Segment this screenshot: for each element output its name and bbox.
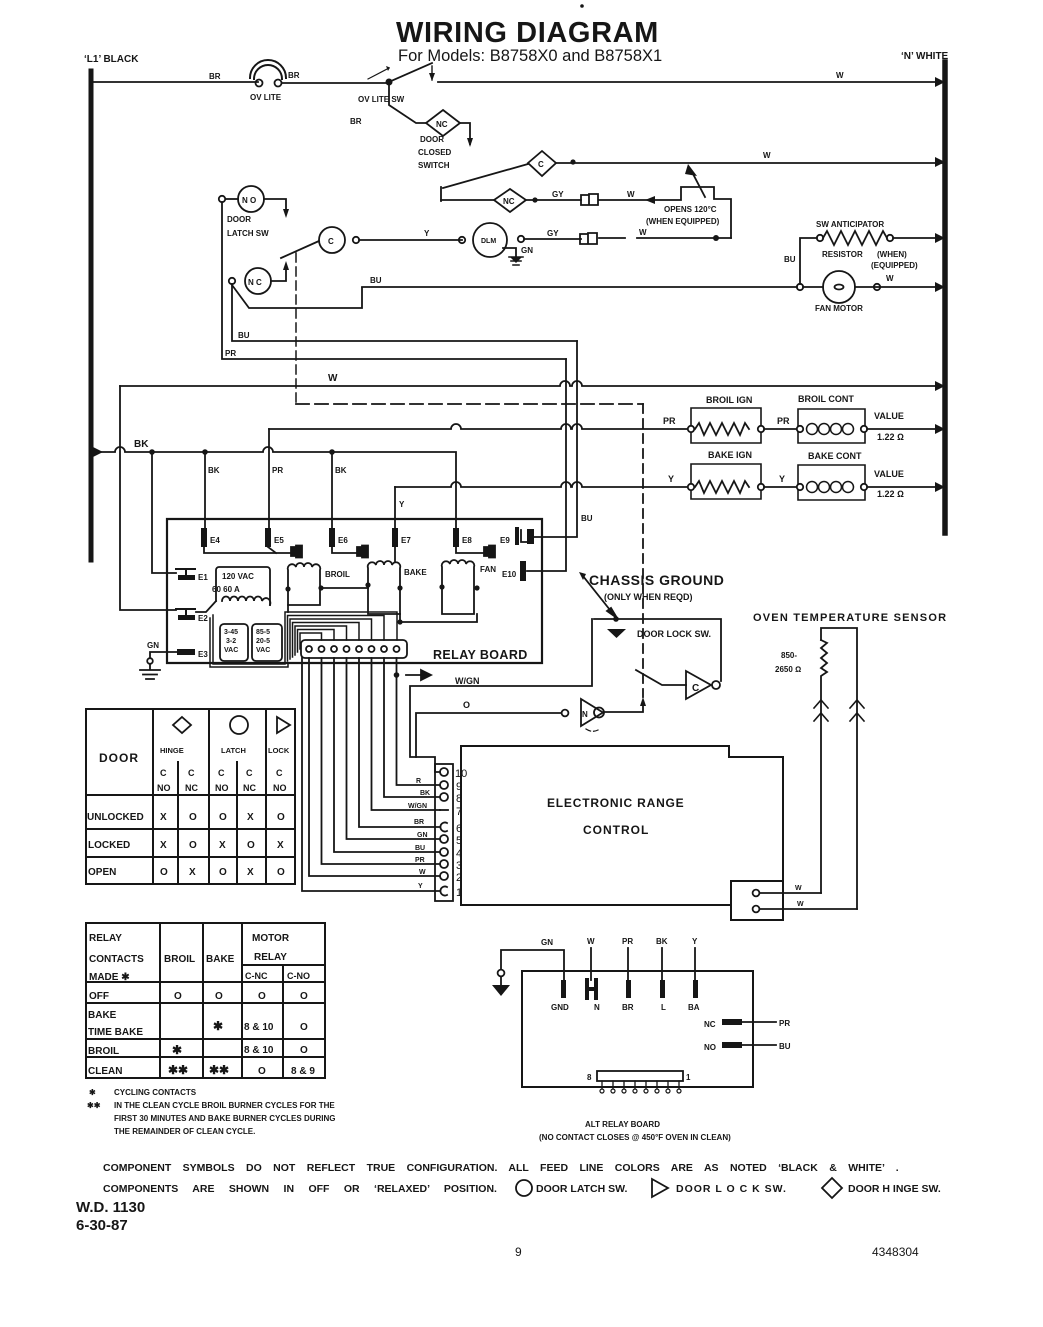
svg-text:1.22 Ω: 1.22 Ω bbox=[877, 432, 904, 442]
wire E6 lower bbox=[332, 547, 357, 553]
svg-text:PR: PR bbox=[663, 416, 676, 426]
wire broil ign to cont bbox=[764, 428, 797, 430]
svg-text:BR: BR bbox=[209, 72, 221, 81]
wire E3 to ground bbox=[150, 652, 177, 658]
svg-text:4348304: 4348304 bbox=[872, 1245, 919, 1259]
svg-text:1.22 Ω: 1.22 Ω bbox=[877, 489, 904, 499]
svg-text:E8: E8 bbox=[462, 536, 472, 545]
svg-text:DOOR LOCK SW.: DOOR LOCK SW. bbox=[637, 629, 711, 639]
svg-text:1: 1 bbox=[456, 887, 462, 899]
wire resistor to N bus bbox=[893, 237, 945, 239]
svg-text:PR: PR bbox=[622, 937, 633, 946]
svg-text:E5: E5 bbox=[274, 536, 284, 545]
footer lock symbol bbox=[652, 1179, 668, 1197]
svg-text:NO: NO bbox=[704, 1043, 716, 1052]
wire sensor top bbox=[760, 892, 821, 894]
ERC pin 6 bbox=[440, 823, 462, 835]
junction N bus fan row bbox=[935, 282, 945, 292]
junction dot chassis bbox=[613, 616, 619, 622]
svg-text:3-45: 3-45 bbox=[224, 629, 238, 636]
wire E1 drop bbox=[152, 452, 176, 573]
resistor SW ANTICIPATOR bbox=[816, 220, 918, 270]
svg-text:E3: E3 bbox=[198, 650, 208, 659]
svg-text:W/GN: W/GN bbox=[455, 676, 480, 686]
svg-text:(ONLY WHEN REQD): (ONLY WHEN REQD) bbox=[604, 592, 693, 602]
svg-text:O: O bbox=[277, 812, 285, 823]
wire E4 lower to connector bbox=[204, 547, 290, 553]
svg-text:CLEAN: CLEAN bbox=[88, 1066, 122, 1077]
junction dot bbox=[570, 159, 575, 164]
svg-text:X: X bbox=[277, 840, 284, 851]
svg-text:COMPONENT SYMBOLS DO NOT R: COMPONENT SYMBOLS DO NOT REFLECT TRUE CO… bbox=[103, 1162, 899, 1174]
svg-text:IN THE CLEAN CYCLE BROIL BURNE: IN THE CLEAN CYCLE BROIL BURNER CYCLES F… bbox=[114, 1101, 335, 1110]
dashed chassis line vertical bbox=[295, 253, 297, 404]
wire connector drop 7 WGN bbox=[372, 658, 441, 810]
svg-text:RELAY BOARD: RELAY BOARD bbox=[433, 648, 528, 662]
wire bundle nest 3 bbox=[290, 619, 372, 659]
svg-text:BK: BK bbox=[335, 466, 347, 475]
wire bundle wrap outer bbox=[287, 605, 289, 612]
wire L1 bus bbox=[89, 71, 94, 560]
junction L1 bus arrow bbox=[91, 446, 103, 458]
svg-text:3: 3 bbox=[456, 860, 462, 872]
svg-text:O: O bbox=[189, 812, 197, 823]
terminal E10 bbox=[502, 561, 526, 581]
svg-text:E1: E1 bbox=[198, 573, 208, 582]
wire PR ignitor row bbox=[269, 424, 691, 429]
coil BAKE bbox=[365, 561, 427, 614]
arrow on wire bbox=[645, 196, 655, 204]
svg-text:BU: BU bbox=[415, 845, 425, 852]
svg-text:BROIL: BROIL bbox=[88, 1046, 119, 1057]
motor DLM circle bbox=[459, 223, 524, 257]
svg-text:O: O bbox=[258, 1066, 266, 1077]
svg-text:CYCLING CONTACTS: CYCLING CONTACTS bbox=[114, 1088, 197, 1097]
svg-text:BU: BU bbox=[779, 1042, 791, 1051]
svg-text:BAKE IGN: BAKE IGN bbox=[708, 450, 752, 460]
junction circle bbox=[797, 284, 803, 290]
connector strip relay board bbox=[301, 640, 407, 658]
wire E8 lower bbox=[456, 547, 484, 553]
svg-text:GND: GND bbox=[551, 1003, 569, 1012]
svg-text:C: C bbox=[218, 768, 225, 778]
svg-text:BAKE CONT: BAKE CONT bbox=[808, 451, 862, 461]
door table rows bbox=[87, 812, 285, 878]
svg-text:GY: GY bbox=[547, 229, 559, 238]
wire broil to bake coil bbox=[321, 587, 368, 589]
svg-text:C-NO: C-NO bbox=[287, 971, 310, 981]
svg-text:DOOR L O C K SW.: DOOR L O C K SW. bbox=[676, 1183, 787, 1195]
svg-text:NC: NC bbox=[436, 120, 448, 129]
relay table footnotes bbox=[87, 1088, 336, 1136]
svg-text:9: 9 bbox=[515, 1245, 522, 1259]
svg-text:850-: 850- bbox=[781, 651, 797, 660]
svg-text:GY: GY bbox=[552, 190, 564, 199]
door lock sw top bbox=[594, 619, 721, 681]
junction N bus anticipator row bbox=[935, 233, 945, 243]
svg-text:BROIL: BROIL bbox=[325, 570, 350, 579]
wire stub W bbox=[587, 937, 595, 980]
wire sensor bottom bbox=[760, 908, 857, 910]
svg-text:NC: NC bbox=[243, 783, 256, 793]
svg-text:E10: E10 bbox=[502, 570, 517, 579]
terminal circle NO switch bbox=[562, 710, 569, 717]
svg-text:O: O bbox=[219, 812, 227, 823]
arrow W/GN bbox=[406, 670, 431, 680]
svg-text:NO: NO bbox=[215, 783, 229, 793]
svg-text:W.D. 1130: W.D. 1130 bbox=[76, 1199, 145, 1216]
svg-text:CLOSED: CLOSED bbox=[418, 148, 452, 157]
svg-text:BK: BK bbox=[656, 937, 668, 946]
svg-text:VAC: VAC bbox=[256, 647, 270, 654]
wire connector drop 2 W bbox=[309, 658, 440, 876]
svg-text:BK: BK bbox=[420, 790, 430, 797]
svg-text:X: X bbox=[160, 840, 167, 851]
switch blade door lock bbox=[636, 670, 686, 685]
wire connector drop 6 BR bbox=[359, 658, 440, 827]
svg-text:BU: BU bbox=[784, 255, 796, 264]
svg-text:✱: ✱ bbox=[172, 1043, 182, 1057]
svg-text:OPEN: OPEN bbox=[88, 867, 116, 878]
terminal N bbox=[587, 980, 600, 1012]
wire top feed L1 to lamp bbox=[91, 81, 258, 83]
svg-text:2: 2 bbox=[456, 872, 462, 884]
svg-text:W: W bbox=[886, 274, 894, 283]
svg-text:OV LITE SW: OV LITE SW bbox=[358, 95, 405, 104]
wire bundle wrap lower 1 bbox=[213, 615, 285, 664]
svg-text:Y: Y bbox=[692, 937, 698, 946]
ERC pin 4 bbox=[440, 848, 462, 860]
svg-text:WIRING DIAGRAM: WIRING DIAGRAM bbox=[396, 17, 659, 49]
svg-text:PR: PR bbox=[225, 349, 236, 358]
wire E4 drop bbox=[204, 452, 206, 528]
sensor resistor loop bbox=[775, 628, 857, 909]
svg-text:X: X bbox=[160, 812, 167, 823]
wire PR drop to E10 bbox=[527, 359, 566, 571]
terminal BA bbox=[688, 980, 700, 1012]
svg-text:BR: BR bbox=[622, 1003, 634, 1012]
svg-text:BAKE: BAKE bbox=[206, 954, 235, 965]
svg-text:E6: E6 bbox=[338, 536, 348, 545]
svg-text:✱✱: ✱✱ bbox=[87, 1101, 101, 1110]
wire switch to N bus bbox=[438, 81, 945, 83]
svg-text:60 60 A: 60 60 A bbox=[212, 585, 240, 594]
svg-text:W: W bbox=[328, 373, 338, 384]
switch NC circle bbox=[229, 268, 271, 294]
svg-text:✱✱: ✱✱ bbox=[168, 1063, 188, 1077]
wire BU horizontal bbox=[232, 284, 577, 341]
svg-text:W: W bbox=[763, 151, 771, 160]
svg-text:BROIL IGN: BROIL IGN bbox=[706, 395, 752, 405]
svg-text:O: O bbox=[300, 1022, 308, 1033]
svg-text:NO: NO bbox=[157, 783, 171, 793]
svg-text:BR: BR bbox=[414, 819, 424, 826]
svg-text:N: N bbox=[594, 1003, 600, 1012]
ERC pin 10 bbox=[440, 768, 467, 780]
wire Y to door lock motor bbox=[359, 239, 462, 241]
wire W left drop to E2 bbox=[120, 386, 176, 610]
wire connector drop 3 PR bbox=[322, 658, 441, 864]
ERC pin 9 bbox=[440, 781, 462, 793]
svg-text:W: W bbox=[836, 71, 844, 80]
svg-text:O: O bbox=[277, 867, 285, 878]
svg-text:BU: BU bbox=[370, 276, 382, 285]
svg-text:1: 1 bbox=[686, 1073, 691, 1082]
svg-text:Y: Y bbox=[418, 883, 423, 890]
junction dot bbox=[713, 235, 719, 241]
svg-text:BROIL CONT: BROIL CONT bbox=[798, 394, 854, 404]
svg-text:C: C bbox=[188, 768, 195, 778]
wire BK main bbox=[91, 447, 456, 530]
terminal E7 bbox=[392, 528, 411, 547]
ground GN at motor bbox=[503, 248, 516, 256]
svg-text:GN: GN bbox=[417, 832, 428, 839]
svg-text:O: O bbox=[215, 991, 223, 1002]
wire bundle nest 6 bbox=[298, 630, 335, 653]
svg-text:BU: BU bbox=[238, 331, 250, 340]
wire Y ignitor row bbox=[395, 482, 691, 487]
svg-text:NC: NC bbox=[185, 783, 198, 793]
wire broil cont to N bus bbox=[867, 428, 945, 430]
wire bake cont to N bus bbox=[867, 486, 945, 488]
svg-text:CHASSIS GROUND: CHASSIS GROUND bbox=[589, 572, 724, 588]
switch NC diamond (hinge) bbox=[494, 189, 526, 212]
connector block below E6 bbox=[357, 546, 368, 558]
connector block below E5 bbox=[291, 546, 302, 558]
arrow chassis ground leader bbox=[583, 576, 617, 618]
svg-text:Y: Y bbox=[424, 229, 430, 238]
coil BAKE CONT bbox=[797, 451, 904, 500]
svg-text:VALUE: VALUE bbox=[874, 469, 904, 479]
switch door latch NO circle bbox=[219, 186, 269, 238]
svg-text:NO: NO bbox=[273, 783, 287, 793]
transformer secondary 1 bbox=[220, 624, 248, 661]
wire bundle nest 5 bbox=[295, 626, 347, 655]
junction dot bbox=[329, 449, 335, 455]
junction N bus row C bbox=[935, 157, 945, 167]
junction W/GN tap bbox=[394, 672, 400, 678]
svg-text:BK: BK bbox=[134, 439, 149, 450]
svg-text:L: L bbox=[661, 1003, 666, 1012]
svg-text:W: W bbox=[639, 228, 647, 237]
svg-text:O: O bbox=[219, 867, 227, 878]
svg-text:8 & 10: 8 & 10 bbox=[244, 1045, 274, 1056]
svg-text:6-30-87: 6-30-87 bbox=[76, 1217, 128, 1234]
svg-text:CONTROL: CONTROL bbox=[583, 823, 649, 837]
coil BROIL CONT bbox=[797, 394, 904, 443]
terminal E4 bbox=[201, 528, 220, 547]
wire connector drop 1 Y bbox=[302, 658, 440, 891]
svg-text:DOOR: DOOR bbox=[420, 135, 444, 144]
svg-text:C: C bbox=[538, 160, 544, 169]
svg-text:NC: NC bbox=[704, 1020, 716, 1029]
contact NC bbox=[704, 1019, 790, 1029]
svg-text:R: R bbox=[416, 778, 421, 785]
svg-text:4: 4 bbox=[456, 848, 462, 860]
footer latch symbol bbox=[516, 1180, 532, 1196]
svg-text:C: C bbox=[692, 683, 699, 694]
svg-text:X: X bbox=[219, 840, 226, 851]
wire stub PR bbox=[622, 937, 633, 980]
svg-text:✱: ✱ bbox=[213, 1019, 223, 1033]
svg-text:ALT RELAY BOARD: ALT RELAY BOARD bbox=[585, 1120, 660, 1129]
wire bundle nest 2 bbox=[288, 616, 385, 662]
svg-text:BR: BR bbox=[350, 117, 362, 126]
svg-text:FIRST 30 MINUTES AND BAKE BURN: FIRST 30 MINUTES AND BAKE BURNER CYCLES … bbox=[114, 1114, 336, 1123]
svg-text:RELAY: RELAY bbox=[254, 952, 287, 963]
svg-text:8: 8 bbox=[587, 1073, 592, 1082]
svg-text:PR: PR bbox=[272, 466, 283, 475]
svg-text:PR: PR bbox=[777, 416, 790, 426]
svg-text:BA: BA bbox=[688, 1003, 700, 1012]
sensor chevrons right bbox=[850, 700, 864, 721]
coil BROIL bbox=[285, 563, 350, 605]
thermal switch arrow OPENS 120C bbox=[692, 172, 705, 197]
wire connector drop 9 R bbox=[397, 658, 441, 785]
junction dot bbox=[397, 619, 402, 624]
terminal E5 bbox=[265, 528, 284, 547]
svg-text:BU: BU bbox=[581, 514, 593, 523]
svg-text:RESISTOR: RESISTOR bbox=[822, 250, 863, 259]
wire N bus bbox=[942, 62, 948, 533]
svg-text:W: W bbox=[419, 869, 426, 876]
svg-text:DOOR H INGE SW.: DOOR H INGE SW. bbox=[848, 1183, 941, 1195]
svg-text:W: W bbox=[627, 190, 635, 199]
footer hinge symbol bbox=[822, 1178, 842, 1198]
svg-text:E4: E4 bbox=[210, 536, 220, 545]
wire W line bbox=[120, 381, 945, 386]
svg-text:GN: GN bbox=[147, 641, 159, 650]
svg-text:6: 6 bbox=[456, 823, 462, 835]
svg-text:(WHEN): (WHEN) bbox=[877, 250, 907, 259]
svg-text:85-5: 85-5 bbox=[256, 629, 270, 636]
wire E2 to transformer bbox=[196, 601, 216, 612]
wire bundle wrap lower 2 bbox=[210, 618, 288, 667]
wire C diamond to N bus bbox=[556, 162, 945, 164]
transformer secondary 2 bbox=[252, 624, 282, 661]
svg-text:5: 5 bbox=[456, 835, 462, 847]
svg-text:BAKE: BAKE bbox=[404, 568, 427, 577]
wire connector drop 8 BK bbox=[384, 658, 440, 797]
door table header symbols bbox=[173, 716, 290, 734]
svg-text:8: 8 bbox=[456, 793, 462, 805]
svg-text:8 & 9: 8 & 9 bbox=[291, 1066, 315, 1077]
wire NC diamond left bbox=[441, 199, 494, 201]
dashed chassis line horizontal bbox=[296, 403, 643, 405]
svg-text:PR: PR bbox=[779, 1019, 790, 1028]
svg-text:GN: GN bbox=[521, 246, 533, 255]
relay board outline bbox=[167, 519, 542, 663]
wire BR drop to door closed switch bbox=[389, 82, 426, 123]
svg-text:OV LITE: OV LITE bbox=[250, 93, 282, 102]
coil FAN bbox=[439, 560, 496, 614]
wire bundle nest 4 bbox=[293, 623, 360, 658]
terminal E3 bbox=[177, 649, 208, 659]
svg-text:O: O bbox=[189, 840, 197, 851]
svg-text:‘N’ WHITE: ‘N’ WHITE bbox=[901, 51, 949, 62]
junction N bus broil row bbox=[935, 424, 945, 434]
svg-text:8 & 10: 8 & 10 bbox=[244, 1022, 274, 1033]
wire motor to junction bbox=[524, 238, 731, 239]
terminal GND bbox=[551, 980, 569, 1012]
ERC outline bbox=[461, 746, 783, 905]
svg-text:X: X bbox=[247, 867, 254, 878]
wire NC to arrow bbox=[271, 265, 286, 281]
svg-text:FAN: FAN bbox=[480, 565, 496, 574]
svg-text:SWITCH: SWITCH bbox=[418, 161, 450, 170]
ERC pin 5 bbox=[440, 835, 462, 847]
svg-text:7: 7 bbox=[456, 806, 462, 818]
svg-text:OVEN TEMPERATURE SENSOR: OVEN TEMPERATURE SENSOR bbox=[753, 612, 947, 624]
wire connector drop 5 GN bbox=[347, 658, 441, 839]
svg-text:C-NC: C-NC bbox=[245, 971, 268, 981]
svg-text:THE REMAINDER OF CLEAN CYCLE.: THE REMAINDER OF CLEAN CYCLE. bbox=[114, 1127, 255, 1136]
wire lamp to switch bbox=[282, 82, 389, 84]
svg-text:✱: ✱ bbox=[89, 1088, 96, 1097]
ground GN alt board bbox=[492, 938, 564, 996]
svg-text:3-2: 3-2 bbox=[226, 638, 236, 645]
svg-text:BR: BR bbox=[288, 71, 300, 80]
door table header text bbox=[99, 746, 290, 793]
switch C circle bbox=[319, 227, 359, 253]
junction N bus top bbox=[935, 77, 945, 87]
svg-text:✱✱: ✱✱ bbox=[209, 1063, 229, 1077]
svg-text:COMPONENTS ARE SHOWN IN OF: COMPONENTS ARE SHOWN IN OFF OR ‘RELAXED’… bbox=[103, 1183, 497, 1195]
svg-text:VAC: VAC bbox=[224, 647, 238, 654]
svg-text:2650 Ω: 2650 Ω bbox=[775, 665, 801, 674]
ERC pin 2 bbox=[440, 872, 462, 884]
svg-text:O: O bbox=[258, 991, 266, 1002]
wire NO output bbox=[604, 703, 643, 712]
terminal E2 bbox=[176, 609, 208, 623]
svg-text:Y: Y bbox=[668, 474, 674, 484]
svg-text:MADE ✱: MADE ✱ bbox=[89, 972, 130, 983]
svg-text:O: O bbox=[160, 867, 168, 878]
svg-text:C: C bbox=[160, 768, 167, 778]
svg-text:DLM: DLM bbox=[481, 238, 496, 245]
wire bundle nest 1 bbox=[285, 612, 397, 663]
svg-text:CONTACTS: CONTACTS bbox=[89, 954, 144, 965]
svg-text:E2: E2 bbox=[198, 614, 208, 623]
svg-text:PR: PR bbox=[415, 857, 425, 864]
svg-text:C: C bbox=[328, 237, 334, 246]
lamp OV LITE bbox=[250, 60, 286, 102]
wire fan line bbox=[362, 286, 945, 288]
switch C diamond bbox=[528, 151, 556, 176]
svg-text:O: O bbox=[300, 991, 308, 1002]
svg-text:SW ANTICIPATOR: SW ANTICIPATOR bbox=[816, 220, 884, 229]
svg-text:LATCH SW: LATCH SW bbox=[227, 229, 269, 238]
svg-text:O: O bbox=[463, 700, 470, 710]
wire connector drop 4 BU bbox=[334, 658, 440, 852]
junction dot bbox=[202, 449, 208, 455]
svg-text:BK: BK bbox=[208, 466, 220, 475]
terminal L bbox=[660, 980, 666, 1012]
ERC terminal circles bbox=[753, 890, 760, 913]
svg-text:OPENS 120°C: OPENS 120°C bbox=[664, 205, 717, 214]
wire E5 stub bbox=[268, 547, 276, 553]
svg-text:NC: NC bbox=[503, 197, 515, 206]
svg-text:OFF: OFF bbox=[89, 991, 109, 1002]
terminal E1 bbox=[176, 569, 208, 582]
svg-text:For Models: B8758X0 and B8758X: For Models: B8758X0 and B8758X1 bbox=[398, 47, 662, 65]
svg-text:MOTOR: MOTOR bbox=[252, 933, 290, 944]
wire E6 drop bbox=[331, 452, 333, 528]
svg-text:RELAY: RELAY bbox=[89, 933, 122, 944]
svg-text:W: W bbox=[797, 901, 804, 908]
wire BU drop to E9 bbox=[534, 341, 577, 537]
scan dot bbox=[580, 4, 584, 8]
